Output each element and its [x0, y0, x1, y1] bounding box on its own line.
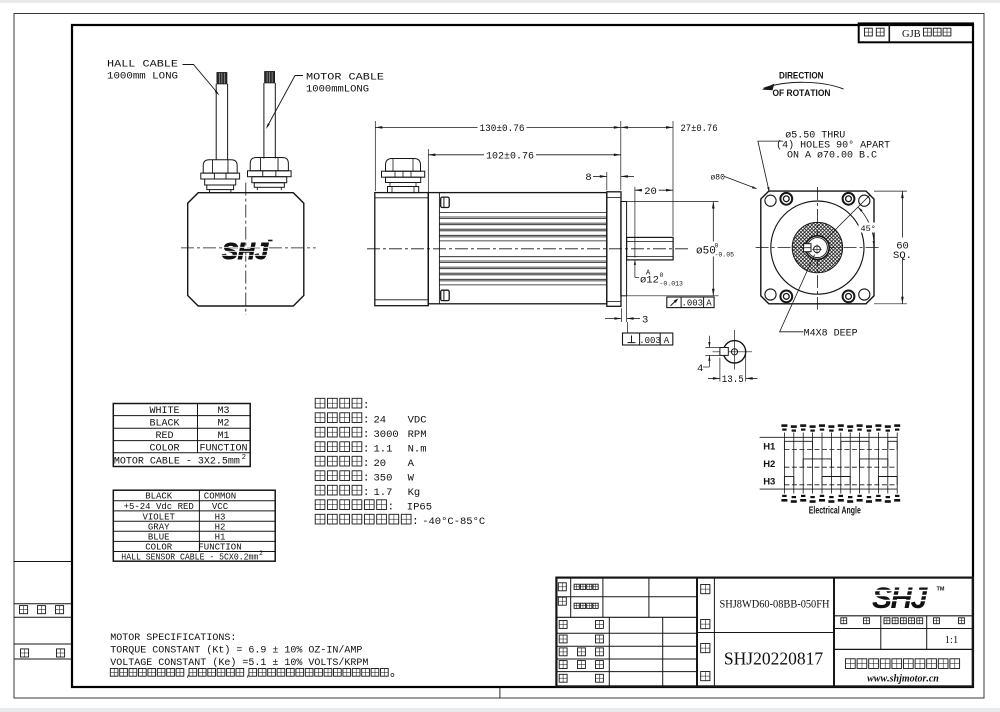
svg-text:COLOR: COLOR	[149, 443, 179, 454]
45 degree reference diagonal	[817, 196, 869, 248]
title block texts left	[558, 583, 566, 591]
dim 60 SQ extension lines	[874, 190, 907, 192]
45 degree arc with arrows	[858, 207, 874, 246]
svg-text:VOLTAGE CONSTANT (Ke) =5.1 ± 1: VOLTAGE CONSTANT (Ke) =5.1 ± 10% VOLTS/K…	[110, 657, 368, 669]
side view motor body	[428, 193, 607, 304]
pilot boss	[621, 202, 627, 296]
svg-text:M4X8 DEEP: M4X8 DEEP	[804, 329, 858, 340]
svg-text:TM: TM	[937, 587, 945, 593]
assembly screw heads	[780, 193, 792, 205]
M4 tapped hole front	[814, 246, 821, 253]
cable gland	[203, 160, 237, 173]
svg-text:IP65: IP65	[407, 501, 432, 513]
shaft end detail circle	[723, 341, 745, 363]
svg-text::: :	[363, 429, 370, 441]
svg-text:350: 350	[374, 472, 393, 484]
hall sensor cable table	[113, 490, 275, 561]
chinese finish note	[110, 669, 118, 677]
rear view horizontal centerline	[181, 247, 316, 249]
title block outline	[556, 578, 972, 687]
side view gland on top	[382, 159, 425, 193]
dim 27 line and text	[621, 126, 673, 128]
svg-text:ø12: ø12	[640, 275, 659, 287]
svg-text:,: ,	[246, 670, 251, 679]
svg-text:GJB: GJB	[902, 29, 921, 40]
svg-text:VCC: VCC	[212, 502, 229, 512]
svg-text:TORQUE CONSTANT (Kt) = 6.9 ± 1: TORQUE CONSTANT (Kt) = 6.9 ± 10% OZ-IN/A…	[110, 645, 362, 657]
dim 130 line and text	[375, 126, 621, 128]
svg-text:20: 20	[644, 186, 657, 198]
shaft end M4 hole	[731, 349, 737, 355]
M4X8 DEEP label and leader	[780, 255, 815, 332]
left margin page-count boxes	[14, 561, 72, 563]
title block right grid	[834, 615, 973, 617]
svg-text:Kg: Kg	[408, 487, 421, 499]
SHJ logo large	[871, 582, 934, 615]
H3 waveform	[784, 484, 897, 486]
svg-text:RED: RED	[155, 431, 173, 442]
svg-text:Electrical Angle: Electrical Angle	[809, 505, 861, 517]
svg-text:SHJ20220817: SHJ20220817	[724, 649, 823, 669]
svg-text:H2: H2	[215, 522, 226, 532]
dim dia12 label	[634, 260, 636, 278]
svg-text:ON A ø70.00 B.C: ON A ø70.00 B.C	[787, 150, 877, 161]
svg-text:H1: H1	[763, 441, 776, 452]
svg-text:3000: 3000	[374, 429, 399, 441]
svg-text::: :	[363, 472, 370, 484]
svg-text:ø80: ø80	[711, 173, 726, 182]
svg-text:VDC: VDC	[408, 414, 427, 426]
svg-text:FUNCTION: FUNCTION	[199, 443, 247, 454]
svg-text:MOTOR SPECIFICATIONS:: MOTOR SPECIFICATIONS:	[110, 633, 236, 644]
dim 4	[708, 336, 710, 348]
quantity weight scale header	[841, 618, 847, 624]
svg-text:1000mm LONG: 1000mm LONG	[107, 71, 178, 83]
side view centerline	[367, 248, 689, 250]
rear view vertical centerline	[245, 183, 247, 315]
runout tolerance frame	[667, 297, 714, 308]
svg-text:www.shjmotor.cn: www.shjmotor.cn	[867, 674, 939, 685]
svg-text:VIOLET: VIOLET	[142, 512, 175, 522]
svg-text::: :	[388, 501, 395, 513]
label MOTOR CABLE leader	[267, 76, 303, 128]
svg-text:DIRECTION: DIRECTION	[779, 71, 824, 82]
svg-text:HALL SENSOR CABLE - 5CX0.2mm: HALL SENSOR CABLE - 5CX0.2mm	[121, 552, 258, 562]
dim 13.5	[719, 358, 721, 382]
bottom fold mark tick	[499, 687, 501, 698]
dim dia50 extension lines	[627, 201, 719, 203]
svg-text:0: 0	[715, 243, 719, 250]
side view rear housing	[375, 193, 429, 306]
dim dia50 text	[694, 242, 734, 257]
motor cable table	[113, 404, 250, 467]
body fins top	[439, 212, 606, 214]
svg-text::: :	[363, 400, 370, 412]
svg-text:1000mmLONG: 1000mmLONG	[306, 84, 369, 96]
svg-text:RPM: RPM	[408, 429, 427, 441]
svg-text:N.m: N.m	[408, 443, 427, 455]
H1 waveform	[784, 449, 897, 451]
svg-text:WHITE: WHITE	[149, 406, 179, 417]
body fins bottom	[439, 256, 606, 258]
svg-text:COMMON: COMMON	[204, 492, 236, 502]
svg-text::: :	[363, 443, 370, 455]
svg-text:ø50: ø50	[696, 246, 716, 258]
svg-text:+5-24 Vdc RED: +5-24 Vdc RED	[124, 502, 194, 512]
label HALL CABLE leader	[183, 65, 218, 94]
svg-text:SHJ: SHJ	[872, 582, 929, 615]
svg-text:M3: M3	[217, 406, 229, 417]
svg-text:27±0.76: 27±0.76	[681, 124, 718, 135]
svg-text:H3: H3	[215, 512, 226, 522]
key slot rectangle	[720, 348, 728, 356]
svg-text:-40°C-85°C: -40°C-85°C	[422, 516, 485, 528]
svg-text:H2: H2	[763, 459, 775, 470]
svg-text:1.1: 1.1	[374, 443, 393, 455]
cable	[215, 84, 217, 160]
motor performance spec text block	[315, 398, 325, 408]
svg-text:A: A	[408, 458, 415, 470]
svg-text:A: A	[664, 336, 670, 346]
title block left grid	[570, 578, 572, 618]
front flange	[607, 192, 621, 306]
svg-text:13.5: 13.5	[722, 374, 744, 386]
shaft side view	[627, 237, 674, 260]
svg-text:130±0.76: 130±0.76	[480, 124, 525, 135]
key width extension lines	[705, 347, 720, 349]
front view centerline vertical	[816, 187, 818, 310]
classification table 级别 GJB	[859, 23, 973, 42]
direction of rotation arc arrow	[764, 82, 844, 89]
corner through holes dia5.5	[765, 195, 776, 206]
model number column	[713, 578, 715, 687]
svg-text:20: 20	[374, 458, 387, 470]
svg-text:3: 3	[642, 314, 648, 326]
SHJ logo on rear view	[222, 238, 269, 264]
front view square flange	[761, 191, 874, 304]
svg-text:GRAY: GRAY	[148, 522, 170, 532]
svg-text:102±0.76: 102±0.76	[486, 151, 534, 162]
dim 102 line and text	[428, 154, 621, 156]
svg-text:SHJ: SHJ	[222, 238, 269, 264]
chart degree labels top	[781, 424, 787, 427]
dia5.50 note leader	[758, 141, 783, 190]
dim 130 extension lines	[374, 121, 376, 191]
svg-text:SQ.: SQ.	[893, 250, 912, 262]
svg-text:SHJ8WD60-08BB-050FH: SHJ8WD60-08BB-050FH	[720, 598, 830, 610]
svg-text::: :	[412, 516, 419, 528]
body inner vertical line	[438, 193, 440, 304]
svg-text:,: ,	[186, 670, 191, 679]
svg-text::: :	[363, 458, 370, 470]
svg-text:0: 0	[660, 272, 664, 279]
dim 60 SQ line	[901, 191, 903, 304]
crosshatch pattern circle	[792, 222, 842, 272]
perpendicularity tolerance frame	[627, 322, 629, 333]
svg-text:BLACK: BLACK	[145, 492, 173, 502]
svg-text::: :	[363, 487, 370, 499]
dim 60 SQ text	[893, 238, 914, 259]
screw boss bottom	[441, 290, 450, 300]
svg-text:BLUE: BLUE	[148, 533, 170, 543]
dim 20	[634, 187, 636, 258]
dim 3	[620, 308, 622, 322]
title block vertical thick dividers	[696, 578, 698, 687]
rear view body octagon	[188, 193, 304, 306]
45 degree text	[859, 223, 876, 233]
svg-text:.003: .003	[681, 299, 703, 309]
svg-text:MOTOR CABLE - 3X2.5mm: MOTOR CABLE - 3X2.5mm	[114, 457, 240, 468]
svg-text:W: W	[408, 472, 415, 484]
svg-text:H1: H1	[215, 533, 226, 543]
cable	[263, 83, 265, 159]
dim dia50 line	[712, 202, 714, 296]
H2 waveform	[784, 466, 897, 468]
svg-text:1.7: 1.7	[374, 487, 393, 499]
svg-text:HALL CABLE: HALL CABLE	[107, 59, 178, 71]
cable gland	[250, 158, 288, 171]
pilot circle dia50	[771, 201, 864, 294]
svg-text:-0.013: -0.013	[660, 281, 684, 288]
side view rear housing joint line	[427, 193, 429, 306]
chart vertical gridlines	[783, 433, 785, 494]
svg-text::: :	[363, 414, 370, 426]
cable braided tip	[265, 72, 275, 83]
svg-text:1:1: 1:1	[945, 635, 958, 646]
svg-text:.003: .003	[639, 336, 661, 346]
svg-text:8: 8	[585, 172, 591, 184]
svg-text:BLACK: BLACK	[149, 419, 179, 430]
svg-text:45°: 45°	[861, 224, 876, 234]
shaft circle white core	[806, 236, 830, 260]
svg-text:H3: H3	[763, 476, 775, 487]
svg-text:M1: M1	[217, 431, 229, 442]
svg-text:OF ROTATION: OF ROTATION	[773, 88, 831, 99]
svg-text:A: A	[706, 299, 712, 309]
svg-text:24: 24	[374, 414, 387, 426]
svg-text:COLOR: COLOR	[145, 543, 173, 553]
svg-text:M2: M2	[217, 419, 229, 430]
chart top and bottom rails	[760, 436, 898, 438]
cable braided tip	[217, 73, 227, 84]
svg-text:2: 2	[259, 550, 263, 557]
screw boss top	[441, 197, 450, 207]
svg-text:-0.05: -0.05	[715, 252, 735, 259]
svg-text:FUNCTION: FUNCTION	[198, 543, 241, 553]
svg-text:4: 4	[697, 363, 703, 375]
svg-text:MOTOR CABLE: MOTOR CABLE	[306, 72, 384, 84]
company name	[846, 659, 856, 669]
shaft end centerlines	[734, 330, 736, 370]
chart degree labels bottom	[782, 495, 786, 497]
keyway slot front view	[804, 244, 811, 252]
front view centerline horizontal	[756, 247, 880, 249]
svg-text:2: 2	[242, 454, 246, 462]
